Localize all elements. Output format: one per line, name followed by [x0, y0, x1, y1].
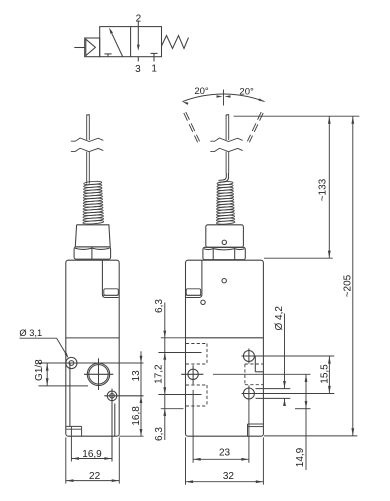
svg-text:20°: 20° — [194, 86, 209, 97]
svg-text:17,2: 17,2 — [154, 364, 165, 384]
svg-text:20°: 20° — [239, 86, 254, 97]
svg-text:32: 32 — [223, 471, 235, 482]
svg-text:Ø 3,1: Ø 3,1 — [19, 328, 42, 338]
svg-text:13: 13 — [131, 370, 142, 382]
svg-text:2: 2 — [136, 13, 142, 24]
svg-text:16,9: 16,9 — [82, 449, 102, 460]
svg-text:1: 1 — [151, 64, 157, 75]
svg-text:G1/8: G1/8 — [34, 359, 45, 381]
svg-text:16,8: 16,8 — [131, 406, 142, 426]
svg-text:15,5: 15,5 — [320, 364, 331, 384]
svg-text:14,9: 14,9 — [295, 447, 306, 467]
svg-text:23: 23 — [219, 448, 231, 459]
svg-text:3: 3 — [135, 64, 141, 75]
svg-text:6,3: 6,3 — [154, 299, 165, 313]
svg-text:22: 22 — [89, 471, 101, 482]
svg-text:~133: ~133 — [318, 178, 329, 201]
svg-text:~205: ~205 — [343, 274, 354, 297]
svg-text:6,3: 6,3 — [154, 427, 165, 441]
svg-text:Ø 4,2: Ø 4,2 — [274, 306, 285, 331]
